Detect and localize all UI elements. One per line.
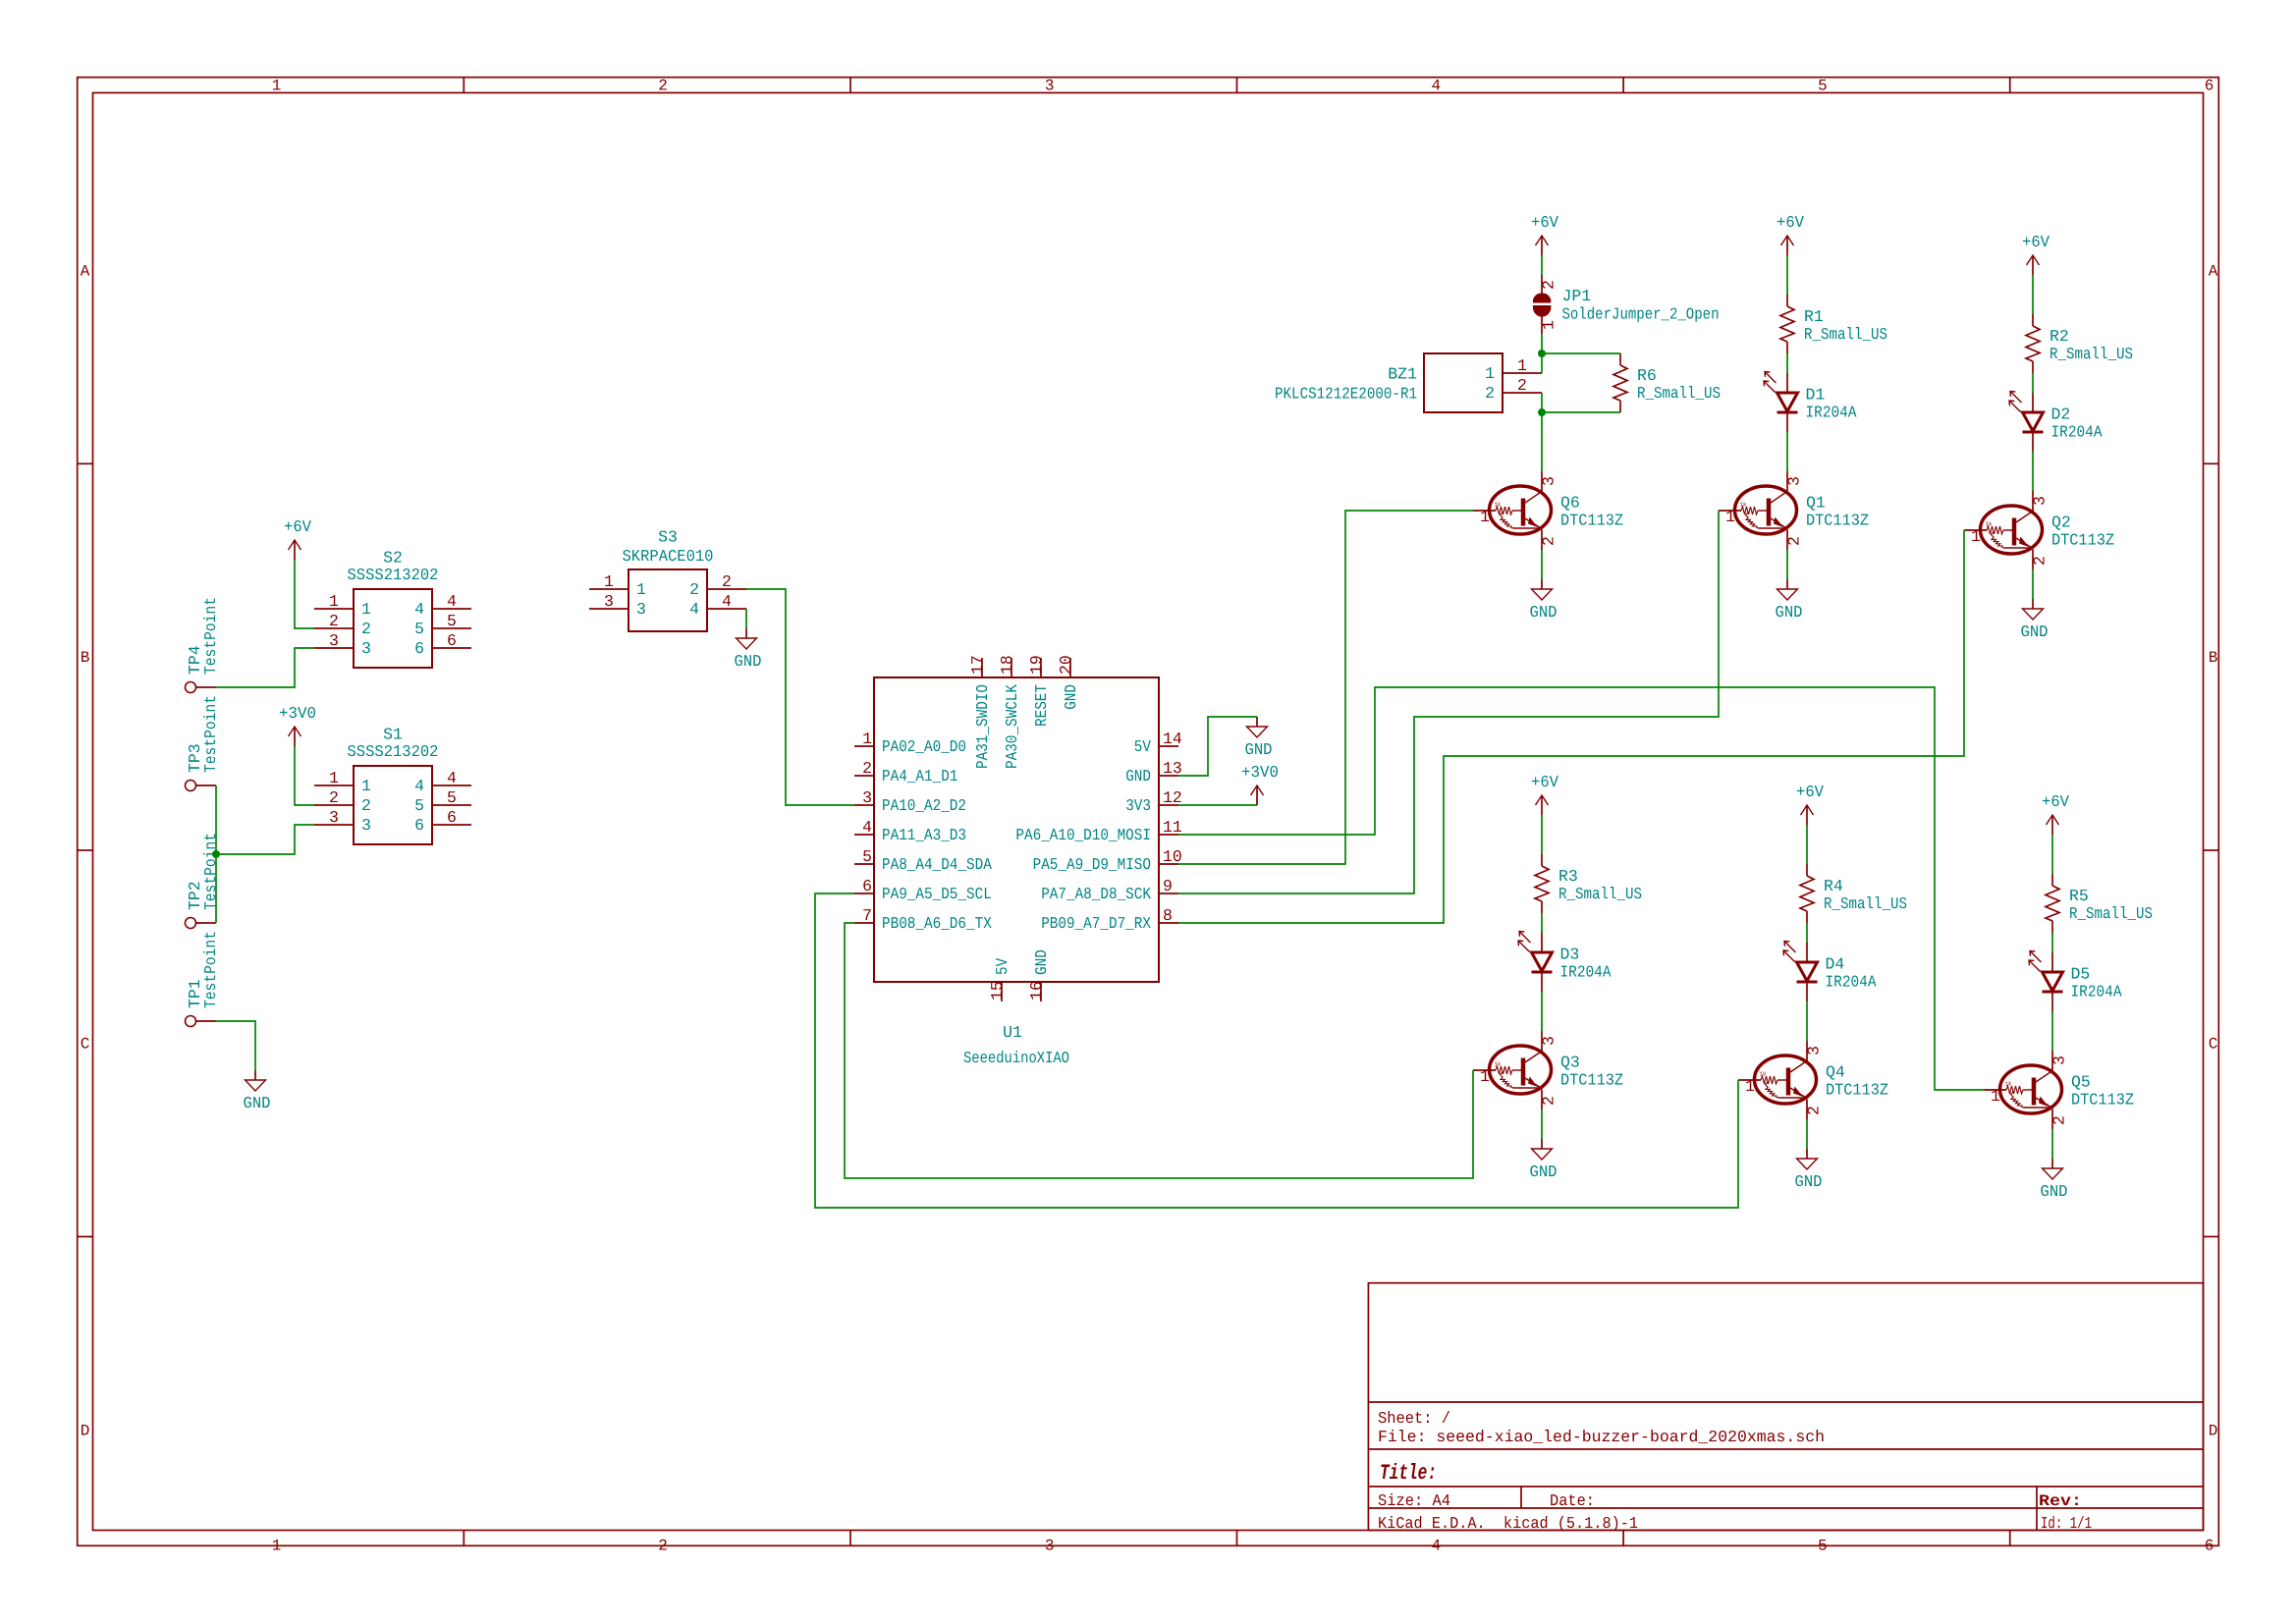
- wire Q2 emitter to GND: [2032, 569, 2034, 599]
- svg-text:4: 4: [1431, 78, 1441, 95]
- wire junction down to TP2: [215, 854, 217, 923]
- svg-text:PA02_A0_D0: PA02_A0_D0: [882, 737, 966, 756]
- wire U1 pin 12 to +3V0: [1178, 804, 1257, 806]
- svg-text:PA4_A1_D1: PA4_A1_D1: [882, 767, 957, 785]
- test point TP2 (TestPoint): [186, 833, 221, 929]
- svg-text:C: C: [2209, 1036, 2218, 1054]
- svg-text:1k: 1k: [1495, 1061, 1502, 1068]
- svg-text:DTC113Z: DTC113Z: [1560, 1071, 1623, 1090]
- U1 pin 12 (3V3): [1159, 804, 1178, 806]
- svg-text:2: 2: [722, 572, 732, 591]
- buzzer BZ1 (PKLCS1212E2000-R1): [1275, 353, 1542, 412]
- wire Q1 emitter to GND: [1786, 550, 1788, 579]
- svg-text:6: 6: [2205, 78, 2214, 95]
- wire Q3 emitter to GND: [1541, 1109, 1543, 1139]
- svg-text:SKRPACE010: SKRPACE010: [623, 547, 714, 566]
- svg-text:GND: GND: [1776, 603, 1803, 622]
- svg-text:PA9_A5_D5_SCL: PA9_A5_D5_SCL: [882, 885, 992, 903]
- U1 pin 18 (PA30_SWCLK): [1011, 658, 1012, 677]
- BZ1 pin 2: [1503, 392, 1542, 394]
- svg-text:3: 3: [862, 788, 872, 807]
- svg-text:1: 1: [1725, 508, 1735, 526]
- svg-text:4: 4: [1431, 1537, 1441, 1554]
- S2 pin 4: [432, 608, 471, 610]
- svg-text:2: 2: [361, 620, 371, 638]
- wire +6V to R2: [2032, 275, 2034, 314]
- BZ1 pin 1: [1503, 372, 1542, 374]
- svg-text:1k: 1k: [1986, 521, 1993, 528]
- svg-text:+6V: +6V: [1777, 213, 1804, 232]
- wire +6V to JP1 pin 2: [1541, 255, 1543, 275]
- resistor R5 (R_Small_US): [2046, 874, 2153, 933]
- svg-text:D3: D3: [1560, 946, 1580, 964]
- svg-text:2: 2: [361, 796, 371, 815]
- svg-text:1: 1: [1480, 508, 1490, 526]
- power symbol +6V (above R3): [1531, 773, 1558, 815]
- svg-text:1: 1: [1480, 1067, 1490, 1086]
- svg-text:PA6_A10_D10_MOSI: PA6_A10_D10_MOSI: [1015, 826, 1151, 844]
- svg-text:+6V: +6V: [1531, 213, 1558, 232]
- svg-text:3: 3: [1045, 1537, 1055, 1554]
- svg-text:PKLCS1212E2000-R1: PKLCS1212E2000-R1: [1275, 385, 1417, 404]
- svg-text:1: 1: [361, 600, 371, 619]
- U1 pin 7 (PB08_A6_D6_TX): [854, 922, 874, 924]
- test point TP4 (TestPoint): [186, 597, 221, 693]
- ground below Q6: [1530, 579, 1558, 622]
- wire D5 to Q5 collector: [2051, 1011, 2053, 1051]
- svg-text:2: 2: [862, 759, 872, 778]
- U1 pin 14 (5V): [1159, 745, 1178, 747]
- S3 pin 3: [589, 608, 629, 610]
- svg-text:PA8_A4_D4_SDA: PA8_A4_D4_SDA: [882, 855, 992, 874]
- MCU module U1 (SeeeduinoXIAO): [854, 655, 1182, 1067]
- svg-text:GND: GND: [1062, 684, 1080, 710]
- transistor Q3 (DTC113Z): [1473, 1031, 1623, 1109]
- U1 pin 11 (PA6_A10_D10_MOSI): [1159, 834, 1178, 836]
- switch S1 (SSSS213202): [314, 726, 471, 845]
- svg-text:IR204A: IR204A: [1806, 404, 1857, 422]
- svg-text:8: 8: [1163, 906, 1173, 925]
- svg-text:3: 3: [604, 592, 614, 611]
- svg-text:D4: D4: [1826, 955, 1845, 974]
- S1 pin 2: [314, 804, 354, 806]
- ground below Q2: [2021, 599, 2049, 641]
- S3 pin 4: [707, 608, 746, 610]
- S1 pin 6: [432, 824, 471, 826]
- resistor R2 (R_Small_US): [2026, 314, 2133, 373]
- wire R4 to D4: [1806, 923, 1808, 943]
- svg-text:S2: S2: [383, 549, 403, 568]
- solder jumper JP1 (SolderJumper_2_Open): [1533, 275, 1720, 334]
- power symbol +3V0 (for S1): [279, 704, 316, 746]
- svg-text:Sheet: /: Sheet: /: [1378, 1409, 1450, 1428]
- svg-text:PA5_A9_D9_MISO: PA5_A9_D9_MISO: [1033, 855, 1151, 874]
- wire TP3 down to junction: [215, 785, 217, 854]
- wire D2 to Q2 collector: [2032, 452, 2034, 491]
- svg-text:5: 5: [1818, 78, 1828, 95]
- svg-text:2: 2: [658, 78, 668, 95]
- transistor Q1 (DTC113Z): [1719, 471, 1869, 550]
- svg-text:A: A: [81, 263, 90, 281]
- svg-text:D: D: [2209, 1422, 2218, 1439]
- svg-text:18: 18: [998, 655, 1016, 675]
- svg-text:Q3: Q3: [1560, 1054, 1580, 1072]
- wire U1 pin 9 to Q1 base: [1178, 511, 1719, 893]
- svg-text:R_Small_US: R_Small_US: [1558, 885, 1642, 903]
- LED D1 (IR204A): [1764, 372, 1857, 433]
- svg-text:R4: R4: [1824, 877, 1843, 895]
- svg-text:File: seeed-xiao_led-buzzer-bo: File: seeed-xiao_led-buzzer-board_2020xm…: [1378, 1428, 1825, 1446]
- svg-text:2: 2: [1540, 280, 1558, 290]
- transistor Q2 (DTC113Z): [1964, 491, 2114, 569]
- S3 pin 2: [707, 588, 746, 590]
- svg-text:SeeeduinoXIAO: SeeeduinoXIAO: [963, 1049, 1069, 1067]
- svg-text:1: 1: [1745, 1077, 1755, 1096]
- svg-text:5: 5: [414, 620, 424, 638]
- wire U1 pin 6 to Q4 base: [815, 893, 1738, 1208]
- S2 pin 1: [314, 608, 354, 610]
- power symbol +6V (for S2): [284, 517, 311, 560]
- svg-text:1k: 1k: [2005, 1081, 2012, 1088]
- svg-text:BZ1: BZ1: [1388, 365, 1417, 384]
- svg-text:GND: GND: [1530, 1163, 1558, 1181]
- svg-text:Q5: Q5: [2071, 1073, 2091, 1092]
- ground below Q5: [2041, 1159, 2068, 1201]
- wire node A to R6 top: [1542, 352, 1620, 354]
- svg-text:Id: 1/1: Id: 1/1: [2041, 1514, 2092, 1533]
- wire D4 to Q4 collector: [1806, 1001, 1808, 1041]
- svg-text:1k: 1k: [1495, 502, 1502, 509]
- U1 pin 4 (PA11_A3_D3): [854, 834, 874, 836]
- svg-text:3: 3: [2031, 496, 2050, 506]
- svg-text:3: 3: [329, 808, 339, 827]
- power symbol +6V (above JP1): [1531, 213, 1558, 255]
- svg-text:1: 1: [636, 580, 646, 599]
- svg-text:RESET: RESET: [1032, 684, 1051, 727]
- svg-text:2: 2: [1540, 1096, 1558, 1106]
- power symbol +6V (above R1): [1777, 213, 1804, 255]
- wire U1 pin 7 to Q3 base: [845, 923, 1473, 1178]
- wire S3 pin 4 to GND: [745, 609, 747, 628]
- wire Q4 emitter to GND: [1806, 1119, 1808, 1149]
- svg-text:3: 3: [1785, 476, 1804, 486]
- svg-text:1: 1: [604, 572, 614, 591]
- svg-text:1: 1: [272, 78, 282, 95]
- svg-text:2: 2: [689, 580, 699, 599]
- svg-text:Q2: Q2: [2051, 514, 2071, 532]
- svg-text:Q1: Q1: [1806, 494, 1826, 513]
- svg-text:1: 1: [272, 1537, 282, 1554]
- svg-text:Title:: Title:: [1380, 1461, 1437, 1486]
- svg-text:6: 6: [414, 816, 424, 835]
- LED D5 (IR204A): [2029, 951, 2122, 1012]
- svg-text:3: 3: [1540, 1036, 1558, 1046]
- svg-text:1k: 1k: [1740, 502, 1747, 509]
- svg-text:DTC113Z: DTC113Z: [1560, 512, 1623, 530]
- svg-text:SSSS213202: SSSS213202: [348, 742, 439, 761]
- U1 pin 13 (GND): [1159, 775, 1178, 777]
- S1 pin 1: [314, 784, 354, 786]
- svg-text:5V: 5V: [993, 958, 1011, 975]
- wire R5 to D5: [2051, 933, 2053, 952]
- svg-text:GND: GND: [2041, 1182, 2068, 1201]
- svg-text:TestPoint: TestPoint: [201, 695, 220, 773]
- U1 pin 8 (PB09_A7_D7_RX): [1159, 922, 1178, 924]
- wire S3 pin 2 to U1 pin 3: [746, 589, 854, 805]
- svg-text:6: 6: [414, 639, 424, 658]
- U1 pin 17 (PA31_SWDIO): [981, 658, 983, 677]
- switch S3 (SKRPACE010): [589, 528, 746, 632]
- svg-text:PA30_SWCLK: PA30_SWCLK: [1003, 684, 1021, 769]
- S2 pin 6: [432, 647, 471, 649]
- svg-text:4: 4: [722, 592, 732, 611]
- svg-text:1: 1: [329, 592, 339, 611]
- wire D3 to Q3 collector: [1541, 992, 1543, 1031]
- svg-text:16: 16: [1027, 981, 1046, 1001]
- svg-text:2: 2: [2031, 556, 2050, 566]
- ground below Q4: [1795, 1149, 1823, 1191]
- wire node A to BZ1 pin 1: [1541, 353, 1543, 373]
- svg-text:3: 3: [1045, 78, 1055, 95]
- svg-text:Rev:: Rev:: [2039, 1492, 2082, 1510]
- switch S2 (SSSS213202): [314, 549, 471, 669]
- svg-text:PA31_SWDIO: PA31_SWDIO: [973, 684, 992, 769]
- svg-text:20: 20: [1057, 655, 1075, 675]
- svg-text:GND: GND: [1795, 1172, 1823, 1191]
- S1 pin 5: [432, 804, 471, 806]
- svg-text:4: 4: [689, 600, 699, 619]
- svg-text:1: 1: [1991, 1087, 2000, 1106]
- svg-text:GND: GND: [1125, 767, 1151, 785]
- svg-text:5: 5: [447, 788, 457, 807]
- svg-text:DTC113Z: DTC113Z: [1826, 1081, 1888, 1100]
- svg-text:R6: R6: [1637, 366, 1657, 385]
- svg-text:DTC113Z: DTC113Z: [1806, 512, 1869, 530]
- svg-text:TestPoint: TestPoint: [201, 597, 220, 675]
- resistor R6 (R_Small_US): [1613, 353, 1721, 412]
- svg-text:GND: GND: [1032, 949, 1051, 975]
- title block: [1368, 1283, 2203, 1531]
- svg-text:TestPoint: TestPoint: [201, 931, 220, 1008]
- transistor Q6 (DTC113Z): [1473, 471, 1623, 550]
- svg-text:1: 1: [1540, 320, 1558, 330]
- svg-text:3: 3: [329, 631, 339, 650]
- U1 pin 19 (RESET): [1040, 658, 1042, 677]
- junction node B (buzzer bottom): [1538, 408, 1546, 416]
- S2 pin 2: [314, 627, 354, 629]
- wire TP4 to S2 pin 3: [216, 648, 314, 687]
- svg-text:B: B: [81, 649, 90, 667]
- svg-text:R_Small_US: R_Small_US: [1804, 325, 1887, 344]
- svg-text:5: 5: [447, 612, 457, 630]
- ground at U1 pin 13: [1245, 717, 1273, 759]
- svg-text:5: 5: [414, 796, 424, 815]
- svg-text:IR204A: IR204A: [2071, 983, 2122, 1001]
- svg-text:D5: D5: [2071, 965, 2091, 984]
- svg-text:6: 6: [447, 808, 457, 827]
- svg-text:SSSS213202: SSSS213202: [348, 566, 439, 584]
- power symbol +6V (above R2): [2022, 233, 2050, 275]
- svg-text:4: 4: [862, 818, 872, 837]
- svg-text:JP1: JP1: [1562, 287, 1592, 305]
- svg-text:IR204A: IR204A: [1826, 973, 1877, 992]
- svg-text:GND: GND: [735, 652, 762, 671]
- U1 pin 1 (PA02_A0_D0): [854, 745, 874, 747]
- wire U1 pin 13 to GND: [1178, 717, 1257, 776]
- svg-text:D2: D2: [2051, 406, 2071, 424]
- wire node B to Q6 collector: [1541, 412, 1543, 471]
- svg-text:PB09_A7_D7_RX: PB09_A7_D7_RX: [1041, 914, 1151, 933]
- svg-text:KiCad E.D.A. kicad (5.1.8)-1: KiCad E.D.A. kicad (5.1.8)-1: [1378, 1514, 1638, 1533]
- power symbol +3V0 (at U1 pin 12): [1241, 763, 1279, 805]
- transistor Q4 (DTC113Z): [1738, 1041, 1888, 1119]
- resistor R1 (R_Small_US): [1780, 295, 1887, 353]
- svg-text:+6V: +6V: [2022, 233, 2050, 251]
- wire BZ1 pin 2 to node B: [1541, 393, 1543, 412]
- svg-text:2: 2: [1805, 1106, 1824, 1115]
- resistor R3 (R_Small_US): [1535, 854, 1642, 913]
- test point TP1 (TestPoint): [186, 931, 221, 1027]
- svg-text:4: 4: [414, 600, 424, 619]
- LED D4 (IR204A): [1783, 942, 1877, 1002]
- svg-text:1: 1: [1517, 356, 1527, 375]
- svg-text:B: B: [2209, 649, 2218, 667]
- svg-text:R1: R1: [1804, 307, 1824, 326]
- svg-text:2: 2: [329, 788, 339, 807]
- junction node A (buzzer top): [1538, 350, 1546, 357]
- svg-text:Size: A4: Size: A4: [1378, 1491, 1450, 1510]
- wire junction to S1 pin 3: [216, 825, 314, 854]
- svg-text:1: 1: [361, 777, 371, 795]
- S1 pin 3: [314, 824, 354, 826]
- svg-text:14: 14: [1163, 730, 1182, 748]
- svg-text:+6V: +6V: [284, 517, 311, 536]
- S1 pin 4: [432, 784, 471, 786]
- svg-text:2: 2: [1485, 384, 1495, 403]
- svg-text:7: 7: [862, 906, 872, 925]
- svg-text:9: 9: [1163, 877, 1173, 895]
- wire JP1 pin 1 to node A: [1541, 334, 1543, 353]
- svg-text:R_Small_US: R_Small_US: [2050, 345, 2133, 363]
- wire +6V to R1: [1786, 255, 1788, 295]
- svg-text:6: 6: [447, 631, 457, 650]
- power symbol +6V (above R4): [1796, 783, 1824, 825]
- wire TP1 to GND: [216, 1021, 255, 1070]
- S3 pin 1: [589, 588, 629, 590]
- wire D1 to Q1 collector: [1786, 432, 1788, 471]
- svg-text:GND: GND: [2021, 622, 2049, 641]
- svg-text:D1: D1: [1806, 386, 1826, 405]
- wire R6 bottom to node B: [1542, 411, 1620, 413]
- svg-text:DTC113Z: DTC113Z: [2071, 1091, 2134, 1109]
- svg-text:2: 2: [1785, 536, 1804, 546]
- wire R3 to D3: [1541, 913, 1543, 933]
- resistor R4 (R_Small_US): [1800, 864, 1907, 923]
- svg-text:D: D: [81, 1422, 90, 1439]
- wire R1 to D1: [1786, 353, 1788, 373]
- wire R2 to D2: [2032, 373, 2034, 393]
- ground below S3 pin 4: [735, 628, 762, 671]
- svg-text:DTC113Z: DTC113Z: [2051, 531, 2114, 550]
- svg-text:2: 2: [1540, 536, 1558, 546]
- wire +6V to R5: [2051, 835, 2053, 874]
- U1 pin 9 (PA7_A8_D8_SCK): [1159, 893, 1178, 894]
- test point TP3 (TestPoint): [186, 695, 221, 791]
- svg-text:1: 1: [329, 769, 339, 787]
- S2 pin 5: [432, 627, 471, 629]
- svg-text:R_Small_US: R_Small_US: [2069, 904, 2153, 923]
- svg-text:2: 2: [329, 612, 339, 630]
- svg-text:TestPoint: TestPoint: [201, 833, 220, 910]
- svg-text:C: C: [81, 1036, 90, 1054]
- svg-text:Date:: Date:: [1550, 1491, 1595, 1510]
- svg-text:Q6: Q6: [1560, 494, 1580, 513]
- svg-text:PB08_A6_D6_TX: PB08_A6_D6_TX: [882, 914, 992, 933]
- svg-text:Q4: Q4: [1826, 1063, 1845, 1082]
- svg-text:3V3: 3V3: [1125, 796, 1151, 815]
- wire Q6 emitter to GND: [1541, 550, 1543, 579]
- svg-text:5: 5: [1818, 1537, 1828, 1554]
- svg-text:3: 3: [2050, 1055, 2069, 1065]
- svg-text:1: 1: [1485, 364, 1495, 383]
- svg-text:3: 3: [1805, 1046, 1824, 1055]
- svg-text:IR204A: IR204A: [1560, 963, 1612, 982]
- svg-text:4: 4: [447, 592, 457, 611]
- svg-text:+6V: +6V: [1531, 773, 1558, 791]
- svg-text:R2: R2: [2050, 327, 2069, 346]
- svg-text:3: 3: [361, 816, 371, 835]
- U1 pin 20 (GND): [1069, 658, 1071, 677]
- S2 pin 3: [314, 647, 354, 649]
- svg-text:5V: 5V: [1134, 737, 1151, 756]
- svg-text:4: 4: [414, 777, 424, 795]
- wire U1 pin 10 to Q6 base: [1178, 511, 1473, 864]
- svg-text:+6V: +6V: [2042, 792, 2069, 811]
- svg-text:1: 1: [1971, 527, 1981, 546]
- svg-text:PA7_A8_D8_SCK: PA7_A8_D8_SCK: [1041, 885, 1151, 903]
- wire Q5 emitter to GND: [2051, 1129, 2053, 1159]
- wire +6V to R4: [1806, 825, 1808, 864]
- svg-text:1k: 1k: [1760, 1071, 1767, 1078]
- svg-text:S1: S1: [383, 726, 403, 744]
- svg-text:U1: U1: [1003, 1023, 1022, 1042]
- junction node at TP3/TP2 tie: [212, 850, 220, 858]
- LED D2 (IR204A): [2009, 392, 2103, 453]
- svg-text:6: 6: [862, 877, 872, 895]
- transistor Q5 (DTC113Z): [1984, 1051, 2134, 1129]
- U1 pin 15 (5V): [1001, 982, 1003, 1001]
- svg-text:6: 6: [2205, 1537, 2214, 1554]
- U1 pin 2 (PA4_A1_D1): [854, 775, 874, 777]
- U1 pin 16 (GND): [1040, 982, 1042, 1001]
- svg-text:+6V: +6V: [1796, 783, 1824, 801]
- wire +3V0 to S1 pin 2: [295, 746, 314, 805]
- svg-text:S3: S3: [658, 528, 678, 547]
- svg-text:3: 3: [361, 639, 371, 658]
- svg-text:5: 5: [862, 847, 872, 866]
- U1 pin 3 (PA10_A2_D2): [854, 804, 874, 806]
- ground below Q3: [1530, 1139, 1558, 1181]
- svg-text:A: A: [2209, 263, 2218, 281]
- svg-text:17: 17: [968, 655, 987, 675]
- svg-text:+3V0: +3V0: [279, 704, 316, 723]
- svg-text:2: 2: [1517, 376, 1527, 395]
- svg-text:1: 1: [862, 730, 872, 748]
- svg-text:2: 2: [658, 1537, 668, 1554]
- svg-text:3: 3: [636, 600, 646, 619]
- svg-text:15: 15: [988, 981, 1007, 1001]
- svg-text:R_Small_US: R_Small_US: [1824, 894, 1907, 913]
